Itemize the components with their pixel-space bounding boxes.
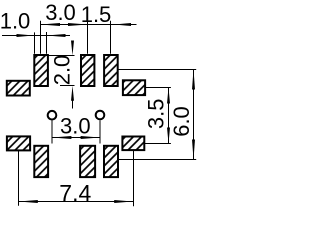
extension line top pads center row (118, 69, 196, 71)
pad P2 top-middle vertical (81, 55, 94, 86)
dimension line 3.0 middle (52, 137, 100, 139)
arrowhead 2.0 bottom pointing up (71, 86, 74, 101)
extension line pad P1 center (40, 21, 42, 54)
dimension line 3.0 / 1.5 top (41, 24, 137, 26)
extension line pad R1 center row (145, 87, 171, 89)
pad R2 right lower horizontal (122, 137, 144, 151)
arrowhead 3.5 top pointing up (167, 88, 170, 104)
pad P3 top-right vertical (104, 55, 118, 86)
arrowhead 1.0 pointing left at pad P1 right edge (46, 34, 65, 37)
arrowhead 3.0 mid left (52, 136, 71, 139)
arrowhead 6.0 top pointing up (192, 70, 195, 90)
arrowhead 3.0 mid right (81, 136, 100, 139)
extension line pad P1 left edge (34, 32, 36, 53)
svg-text:3.0: 3.0 (45, 0, 76, 25)
extension line pad R2 center row (145, 143, 171, 145)
hole H1 left circle (48, 111, 57, 120)
svg-text:1.5: 1.5 (81, 2, 112, 27)
extension line hole H1 (51, 121, 53, 144)
dimension line 3.5 (168, 88, 170, 144)
pad P1 top-left vertical (34, 55, 48, 86)
extension line pad P1 top edge (49, 55, 75, 57)
arrowhead 3.0 right (tip at pad P2 center) (68, 23, 88, 26)
arrowhead 7.4 left (19, 200, 38, 203)
extension line pad P1 bottom edge (60, 85, 75, 87)
arrowhead 3.0 left (tip at pad P1 center) (41, 23, 61, 26)
extension line pad P3 center (110, 21, 112, 54)
arrowhead 7.4 right (114, 200, 133, 203)
svg-text:3.0: 3.0 (60, 114, 91, 139)
arrowhead 1.0 pointing right at pad P1 left edge (17, 34, 34, 37)
arrowhead 1.5 (tip near pad P3 center, pointing left) (114, 23, 131, 26)
arrowhead 6.0 bottom pointing down (192, 140, 195, 160)
extension line bottom pads center row (118, 159, 196, 161)
extension line pad P2 center (87, 21, 89, 54)
dimension line 1.0 (2, 35, 70, 37)
dimension line 6.0 (193, 70, 195, 160)
extension line pad L2 center column (18, 151, 20, 206)
pad P4 bottom-left vertical (34, 146, 48, 177)
pad P5 bottom-middle vertical (80, 146, 95, 177)
extension line hole H2 (99, 120, 101, 143)
dimension line 7.4 (19, 201, 134, 203)
tail line below 2.0 bottom arrowhead (72, 99, 74, 109)
arrowhead 3.5 bottom pointing down (167, 128, 170, 144)
svg-text:1.0: 1.0 (0, 9, 30, 34)
hole H2 right circle (96, 111, 105, 120)
pad R1 right upper horizontal (123, 80, 145, 95)
pad L1 left upper horizontal (7, 81, 30, 96)
arrowhead 2.0 top pointing down (71, 41, 74, 56)
svg-text:6.0: 6.0 (169, 106, 194, 137)
svg-text:3.5: 3.5 (144, 99, 169, 130)
pad P6 bottom-right vertical (104, 146, 118, 177)
extension line pad R2 center column (133, 151, 135, 207)
svg-text:2.0: 2.0 (50, 55, 75, 86)
extension line pad P1 right edge (46, 32, 48, 54)
pad L2 left lower horizontal (7, 136, 30, 150)
